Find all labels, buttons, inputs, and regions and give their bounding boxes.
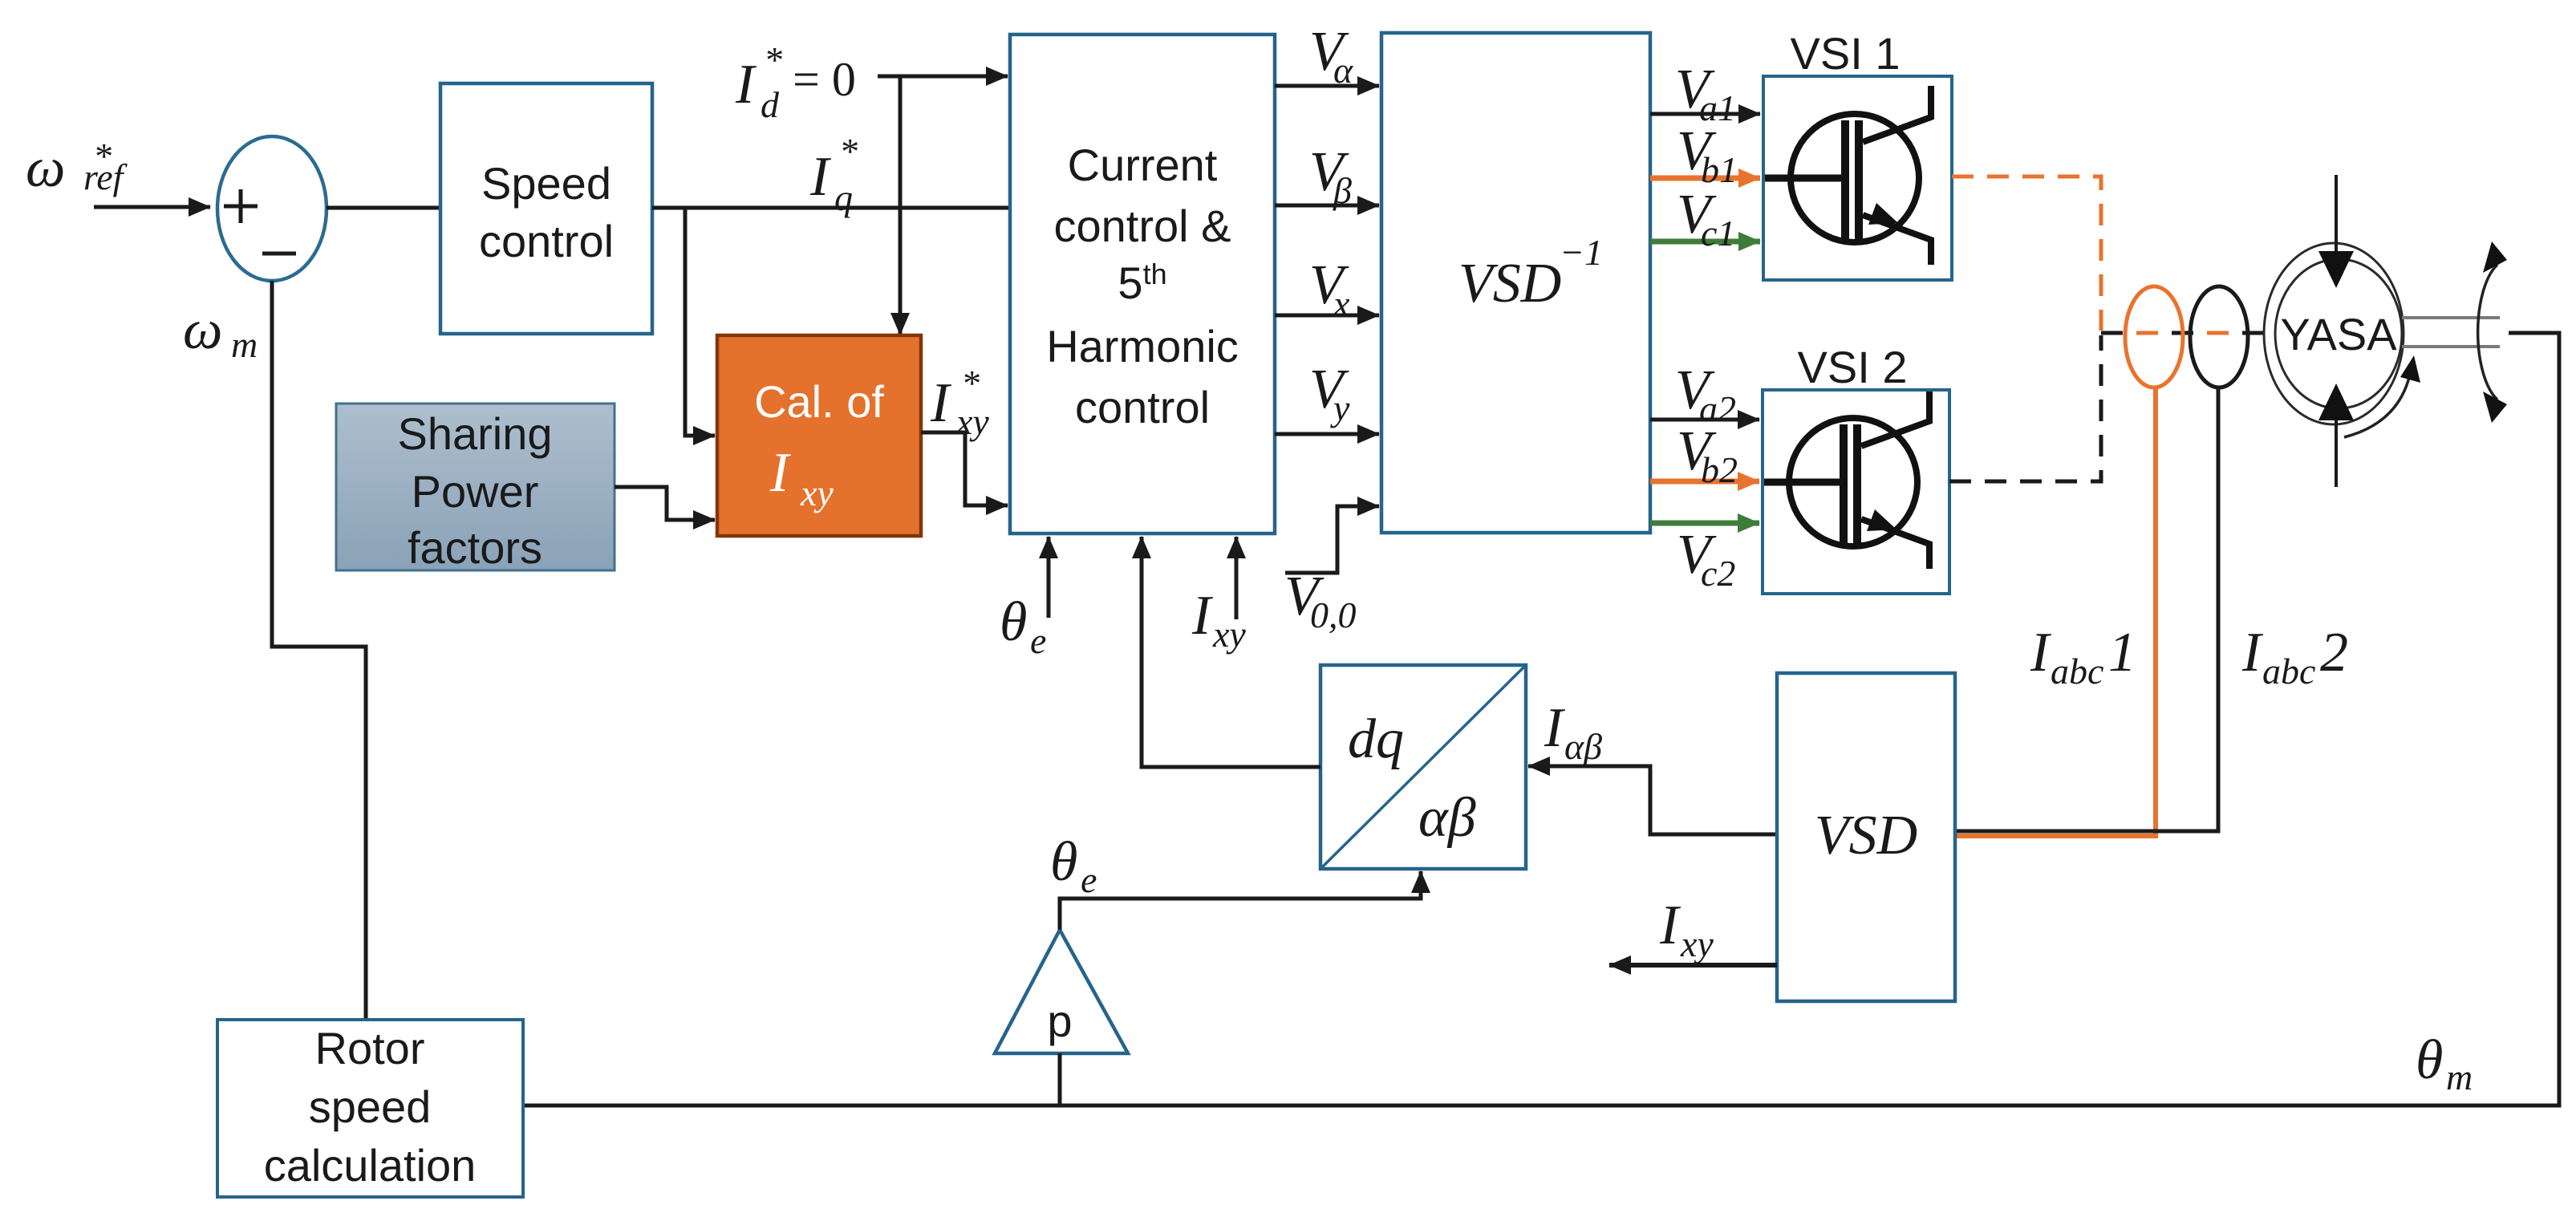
svg-text:b2: b2 [1701, 449, 1738, 490]
svg-text:Sharing: Sharing [397, 408, 552, 459]
wire: Vy to VSD-1 [1275, 432, 1379, 436]
svg-text:xy: xy [955, 401, 989, 442]
wire: theta-e from p triangle to dq block [1060, 871, 1421, 930]
node Iq* label [809, 131, 858, 218]
svg-text:e: e [1081, 859, 1097, 900]
svg-text:2: 2 [2320, 622, 2348, 684]
svg-text:VSD: VSD [1458, 253, 1561, 314]
rotation arc large [2478, 241, 2507, 423]
wire: Id*=0 into Current control [878, 75, 1008, 79]
svg-text:YASA: YASA [2280, 309, 2397, 359]
svg-text:I: I [1544, 697, 1566, 759]
wire: input arrow to summing junction [94, 205, 210, 209]
current sensor 2 (black) [2190, 286, 2248, 387]
node Va1 label [1675, 59, 1736, 128]
wire: Ialphabeta from VSD to dq block [1528, 766, 1777, 834]
svg-text:β: β [1333, 170, 1352, 211]
wire: Vb to VSD-1 [1275, 204, 1379, 208]
svg-text:*: * [961, 363, 980, 404]
svg-text:αβ: αβ [1418, 787, 1476, 849]
wire: theta-m feedback from shaft to rotor speed calculation [523, 333, 2559, 1106]
svg-text:y: y [1330, 387, 1350, 428]
node Vx label [1309, 254, 1350, 324]
svg-text:Harmonic: Harmonic [1046, 321, 1239, 371]
svg-text:Power: Power [412, 466, 539, 517]
block: VSD-1 [1381, 33, 1650, 533]
rotation arc small [2344, 355, 2420, 437]
svg-text:*: * [764, 39, 782, 80]
svg-text:θ: θ [1050, 831, 1077, 893]
node Vc1 label [1677, 184, 1735, 254]
transistor IGBT inside VSI 2 [1764, 392, 1929, 569]
svg-text:αβ: αβ [1564, 726, 1602, 767]
svg-text:c2: c2 [1701, 553, 1735, 594]
svg-text:abc: abc [2262, 651, 2315, 692]
node Iabc2 label [2241, 622, 2348, 692]
node theta-e input label (current control) [1000, 591, 1046, 661]
wire: wm feedback from junction down to rotor speed block [272, 281, 366, 1020]
wire: VSI1 dashed orange output [1952, 176, 2101, 331]
svg-text:I: I [930, 372, 952, 434]
wire: Id* branch down into Cal. of Ixy top [899, 76, 903, 335]
wire: Vx to VSD-1 [1275, 314, 1379, 318]
node Vc2 label [1677, 524, 1735, 594]
summing junction [217, 136, 327, 281]
wire: orange dash overlay on feed line [2101, 331, 2246, 335]
svg-text:control: control [479, 216, 614, 266]
node theta-e label (lower) [1050, 831, 1097, 900]
block: VSD [1777, 673, 1955, 1001]
wire: Vb2 to VSI2 (orange) [1650, 479, 1759, 485]
svg-text:VSI 2: VSI 2 [1798, 342, 1908, 392]
svg-text:speed: speed [309, 1081, 432, 1132]
svg-text:dq: dq [1348, 708, 1404, 770]
svg-text:calculation: calculation [264, 1140, 477, 1191]
svg-text:m: m [231, 324, 258, 365]
wire: theta-e arrow into Current control bottom [1047, 537, 1051, 618]
transistor IGBT inside VSI 1 [1765, 86, 1931, 265]
wire: Cal. of Ixy output to Current control [921, 432, 1008, 505]
svg-text:e: e [1030, 620, 1046, 661]
node Vbeta label [1309, 141, 1352, 211]
svg-text:I: I [1191, 585, 1214, 647]
block: dq/alphabeta transform [1320, 665, 1526, 869]
wire: dashed feed line into motor [2101, 331, 2266, 335]
svg-text:I: I [2030, 622, 2052, 684]
svg-text:0,0: 0,0 [1310, 594, 1357, 635]
svg-text:xy: xy [800, 473, 834, 513]
svg-text:factors: factors [408, 522, 542, 573]
block: Speed control [440, 83, 652, 334]
svg-text:p: p [1047, 996, 1072, 1046]
node Va label [1309, 21, 1353, 91]
wire: Iabc2 black down to VSD [1955, 387, 2218, 831]
svg-text:Rotor: Rotor [315, 1023, 425, 1073]
wire: Iabc1 orange down to VSD [1955, 387, 2156, 836]
svg-text:VSD: VSD [1815, 805, 1917, 866]
svg-text:Cal. of: Cal. of [754, 376, 884, 427]
svg-text:I: I [735, 54, 757, 116]
svg-text:θ: θ [2416, 1029, 2443, 1091]
wire: Iq* from Speed control to Current control [652, 206, 1010, 210]
block: Sharing Power factors [336, 404, 615, 573]
wire: VSI2 dashed black output [1949, 335, 2101, 481]
wire: Ixy arrow into Current control bottom [1235, 537, 1239, 619]
node Id*=0 label [735, 39, 856, 125]
wire: dq output to Current control bottom [1142, 537, 1320, 767]
svg-text:q: q [834, 177, 853, 218]
node wref: reference speed label [26, 136, 128, 199]
svg-text:I: I [809, 146, 832, 208]
node Iabc1 label [2030, 622, 2136, 692]
svg-text:−1: −1 [1560, 232, 1603, 273]
svg-text:xy: xy [1212, 614, 1246, 655]
node theta-m label [2416, 1029, 2473, 1097]
node V00 label [1284, 566, 1357, 635]
svg-text:= 0: = 0 [793, 53, 856, 106]
wire: Sharing Power factors to Cal. of Ixy lower input [615, 487, 715, 520]
svg-text:c1: c1 [1701, 213, 1735, 254]
svg-text:1: 1 [2108, 622, 2136, 684]
svg-text:I: I [769, 442, 792, 504]
svg-text:*: * [839, 131, 858, 172]
wire: Va2 to VSI2 [1650, 418, 1759, 422]
motor shaft [2402, 318, 2500, 347]
block: Cal. of Ixy (orange) [717, 335, 921, 536]
node Ixy* label [930, 363, 989, 442]
block: Rotor speed calculation [217, 1020, 523, 1197]
node Vy label [1309, 359, 1350, 428]
svg-text:ω: ω [183, 299, 222, 361]
svg-text:I: I [2241, 622, 2264, 684]
wire: Ixy output from VSD (left arrow) [1609, 963, 1777, 968]
svg-text:abc: abc [2051, 651, 2103, 692]
node Vb1 label [1677, 120, 1738, 190]
wire: branch down to Cal. of Ixy upper input [685, 208, 715, 436]
wire: V00 into VSD-1 bottom-left [1285, 506, 1379, 573]
svg-text:Current: Current [1068, 140, 1218, 190]
svg-text:ref: ref [83, 156, 128, 197]
svg-text:x: x [1333, 283, 1350, 324]
block: Current control & 5th Harmonic control [1010, 34, 1275, 534]
svg-text:m: m [2446, 1057, 2473, 1097]
svg-text:d: d [761, 84, 780, 125]
node Ixy input label (current control) [1191, 585, 1246, 655]
node Ixy output label [1659, 895, 1714, 964]
svg-text:θ: θ [1000, 591, 1027, 653]
current sensor 1 (orange) [2125, 286, 2183, 387]
wire: Vb1 to VSI1 (orange) [1650, 176, 1760, 181]
wire: Vc2 to VSI2 (green) [1650, 521, 1759, 526]
wire: Va to VSD-1 [1275, 84, 1379, 88]
wire: p triangle base to feedback line [1058, 1053, 1062, 1106]
node Va2 label [1675, 359, 1736, 429]
svg-text:control: control [1075, 382, 1210, 432]
wire: Vc1 to VSI1 (green) [1650, 239, 1760, 245]
block: p gain triangle [995, 930, 1128, 1053]
svg-text:ω: ω [26, 137, 65, 199]
svg-text:control &: control & [1054, 201, 1231, 251]
node Vb2 label [1677, 420, 1738, 490]
motor YASA [2264, 175, 2404, 487]
node Ialphabeta label [1544, 697, 1602, 767]
node wm label [183, 299, 258, 365]
block: VSI 1 box [1763, 76, 1952, 280]
svg-text:xy: xy [1680, 923, 1714, 964]
wire: summing junction to Speed control [327, 206, 440, 210]
svg-text:α: α [1333, 50, 1353, 91]
block: VSI 2 box [1763, 390, 1949, 594]
wire: Va1 to VSI1 [1650, 112, 1760, 116]
svg-text:I: I [1659, 895, 1681, 956]
svg-text:Speed: Speed [481, 158, 611, 209]
svg-text:VSI 1: VSI 1 [1791, 28, 1901, 79]
